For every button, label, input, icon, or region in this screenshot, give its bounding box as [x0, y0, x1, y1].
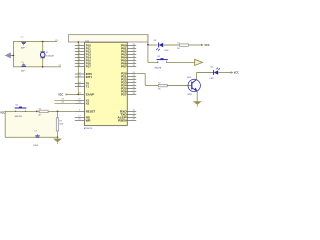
svg-text:VCC: VCC: [0, 112, 5, 115]
IC left pin RESET (9): [75, 110, 85, 112]
svg-text:T1: T1: [86, 85, 90, 89]
IC right pin P26 (27): [127, 91, 136, 93]
push button S2: [157, 61, 159, 62]
IC right pin P03 (36): [127, 54, 136, 56]
transistor Q1 circle: [188, 79, 200, 91]
IC left pin INT0 (12): [75, 73, 85, 75]
ground symbol transistor: [193, 101, 202, 105]
svg-text:VCC: VCC: [234, 72, 239, 75]
svg-text:AT89C51: AT89C51: [84, 127, 93, 130]
svg-text:10K: 10K: [59, 124, 63, 126]
svg-text:VCC: VCC: [204, 44, 209, 47]
IC left pin P17 (8): [75, 66, 85, 68]
wire R2 to base: [167, 85, 192, 87]
svg-text:SW-PB: SW-PB: [154, 67, 161, 69]
net stub X2 at IC pin 18: [55, 102, 77, 104]
IC right pin PSEN (29): [127, 119, 136, 121]
svg-text:S2: S2: [157, 56, 160, 58]
svg-text:LED: LED: [210, 78, 215, 80]
IC left pin P15 (6): [75, 60, 85, 62]
junction dot VCC branch top: [78, 41, 80, 43]
svg-text:10UF: 10UF: [33, 145, 39, 147]
IC left pin RD (17): [75, 116, 85, 118]
svg-text:C1: C1: [21, 37, 25, 39]
IC left pin EA/VP (31): [75, 93, 85, 95]
power port VCC row D2: [231, 71, 234, 74]
wire VCC to EA pin 31: [67, 93, 85, 95]
wire reset node down to R3: [57, 111, 59, 117]
IC right pin P04 (35): [127, 57, 136, 59]
transistor Q1 base bar: [191, 82, 193, 90]
junction dot crystal top: [42, 41, 44, 43]
wire R3 to ground rail: [57, 131, 59, 137]
ground symbol reset: [57, 137, 59, 138]
svg-text:SW-PB: SW-PB: [15, 116, 23, 118]
wire S2 to port: [167, 61, 195, 63]
svg-text:30P: 30P: [21, 48, 25, 50]
wire X2 net stub from crystal bottom to label: [43, 66, 61, 68]
wire collector to LED D2: [196, 72, 213, 74]
IC right pin RXD (10): [127, 110, 136, 112]
LED D2 symbol: [213, 70, 215, 75]
wire rail down to switch S2 row: [148, 61, 158, 63]
svg-text:X1: X1: [46, 52, 49, 54]
IC right pin ALE/P (30): [127, 116, 136, 118]
IC left pin P13 (4): [75, 54, 85, 56]
IC left pin P12 (3): [75, 51, 85, 53]
IC right pin P22 (23): [127, 79, 136, 81]
transistor Q1 collector: [192, 80, 197, 84]
svg-text:X1: X1: [55, 40, 58, 42]
wire under switch: [16, 110, 37, 112]
IC left pin X1 (19): [75, 99, 85, 101]
VCC rail loop rectangle: [69, 35, 149, 42]
svg-text:VCC: VCC: [58, 93, 63, 96]
ground arrow left of oscillator: [11, 54, 14, 56]
svg-text:LED: LED: [164, 50, 169, 52]
IC left pin INT1 (13): [75, 76, 85, 78]
svg-text:D2: D2: [211, 66, 215, 68]
IC left pin WR (16): [75, 119, 85, 121]
crystal oscillator loop (filled rectangle of wires): [14, 42, 43, 67]
wire R4 to reset node: [48, 110, 76, 112]
svg-text:PSEN: PSEN: [118, 118, 127, 122]
junction dot crystal bottom: [42, 66, 44, 68]
svg-text:EA/VP: EA/VP: [86, 92, 95, 96]
wire D1 to R1: [163, 44, 179, 46]
junction dot at ground tap: [13, 55, 15, 57]
power port VCC row1: [201, 44, 204, 47]
wire VCC down left side: [4, 111, 6, 137]
svg-text:P17: P17: [86, 65, 92, 69]
resistor R1 body: [180, 44, 189, 46]
IC right pin P07 (32): [127, 66, 136, 68]
IC right pin P02 (37): [127, 51, 136, 53]
IC U1 AT89C51 body: [85, 42, 128, 125]
ground rail wire: [5, 136, 57, 138]
wire P2.0 to base resistor: [136, 73, 145, 75]
IC right pin P00 (39): [127, 45, 136, 47]
svg-text:NPN: NPN: [187, 94, 192, 96]
IC left pin T0 (14): [75, 83, 85, 85]
IC right pin P25 (26): [127, 88, 136, 90]
svg-text:RESET: RESET: [86, 109, 96, 113]
junction dot after switch: [36, 111, 38, 113]
wire VCC rail to LED D1: [147, 35, 149, 63]
resistor R2 body: [158, 84, 167, 86]
svg-text:P27: P27: [121, 93, 127, 97]
svg-text:9013: 9013: [187, 77, 192, 79]
resistor R3 body vertical: [56, 118, 58, 131]
IC right pin P24 (25): [127, 85, 136, 87]
svg-text:1K: 1K: [158, 89, 161, 91]
net stub X1 at IC pin 19: [55, 99, 77, 101]
svg-text:1K: 1K: [177, 48, 180, 50]
svg-text:X2: X2: [86, 101, 90, 105]
IC left pin P16 (7): [75, 63, 85, 65]
IC left pin P10 (1): [75, 45, 85, 47]
IC right pin P05 (34): [127, 60, 136, 62]
IC right pin P21 (22): [127, 76, 136, 78]
svg-text:4.0000M: 4.0000M: [46, 56, 54, 58]
IC right pin P27 (28): [127, 94, 136, 96]
capacitor C2 plates: [21, 65, 26, 67]
IC left pin X2 (18): [75, 102, 85, 104]
svg-text:INT1: INT1: [86, 75, 93, 79]
junction dot rail to LED row: [147, 44, 149, 46]
svg-text:30P: 30P: [21, 71, 25, 73]
IC left pin P11 (2): [75, 48, 85, 50]
IC right pin P23 (24): [127, 82, 136, 84]
svg-text:S1: S1: [15, 104, 18, 106]
svg-text:D1: D1: [154, 40, 158, 42]
IC left pin P14 (5): [75, 57, 85, 59]
junction dot EA-VCC branch: [78, 94, 80, 96]
VCC branch wire down to EA pin crossing P1 pins: [77, 42, 79, 94]
junction dot R3 bottom: [57, 136, 59, 138]
IC right pin TXD (11): [127, 113, 136, 115]
capacitor C3 plates: [35, 135, 40, 137]
transistor Q1 emitter with arrow: [192, 88, 197, 92]
wire X1 net stub from crystal top to label: [43, 41, 57, 43]
svg-text:X2: X2: [59, 65, 62, 67]
wire emitter to ground: [196, 91, 198, 101]
svg-text:R3: R3: [59, 120, 63, 122]
wire switch to resistor R4: [37, 110, 39, 112]
IC right pin P01 (38): [127, 48, 136, 50]
sheet port arrow: [195, 59, 203, 65]
wire D2 to VCC: [218, 72, 230, 74]
IC right pin P06 (33): [127, 63, 136, 65]
junction dot reset node: [57, 111, 59, 113]
IC right pin P20 (21): [127, 73, 136, 75]
reset circuit loop fill: [5, 111, 57, 137]
IC left pin T1 (15): [75, 86, 85, 88]
wire R1 to VCC: [189, 44, 202, 46]
capacitor C1 plates: [21, 41, 26, 43]
crystal Y1 symbol: [40, 51, 45, 53]
LED D1 symbol: [158, 43, 160, 48]
resistor R4 body: [39, 110, 48, 112]
svg-text:P07: P07: [121, 65, 127, 69]
push button S1: [15, 111, 17, 112]
wire VCC to switch: [5, 110, 16, 112]
